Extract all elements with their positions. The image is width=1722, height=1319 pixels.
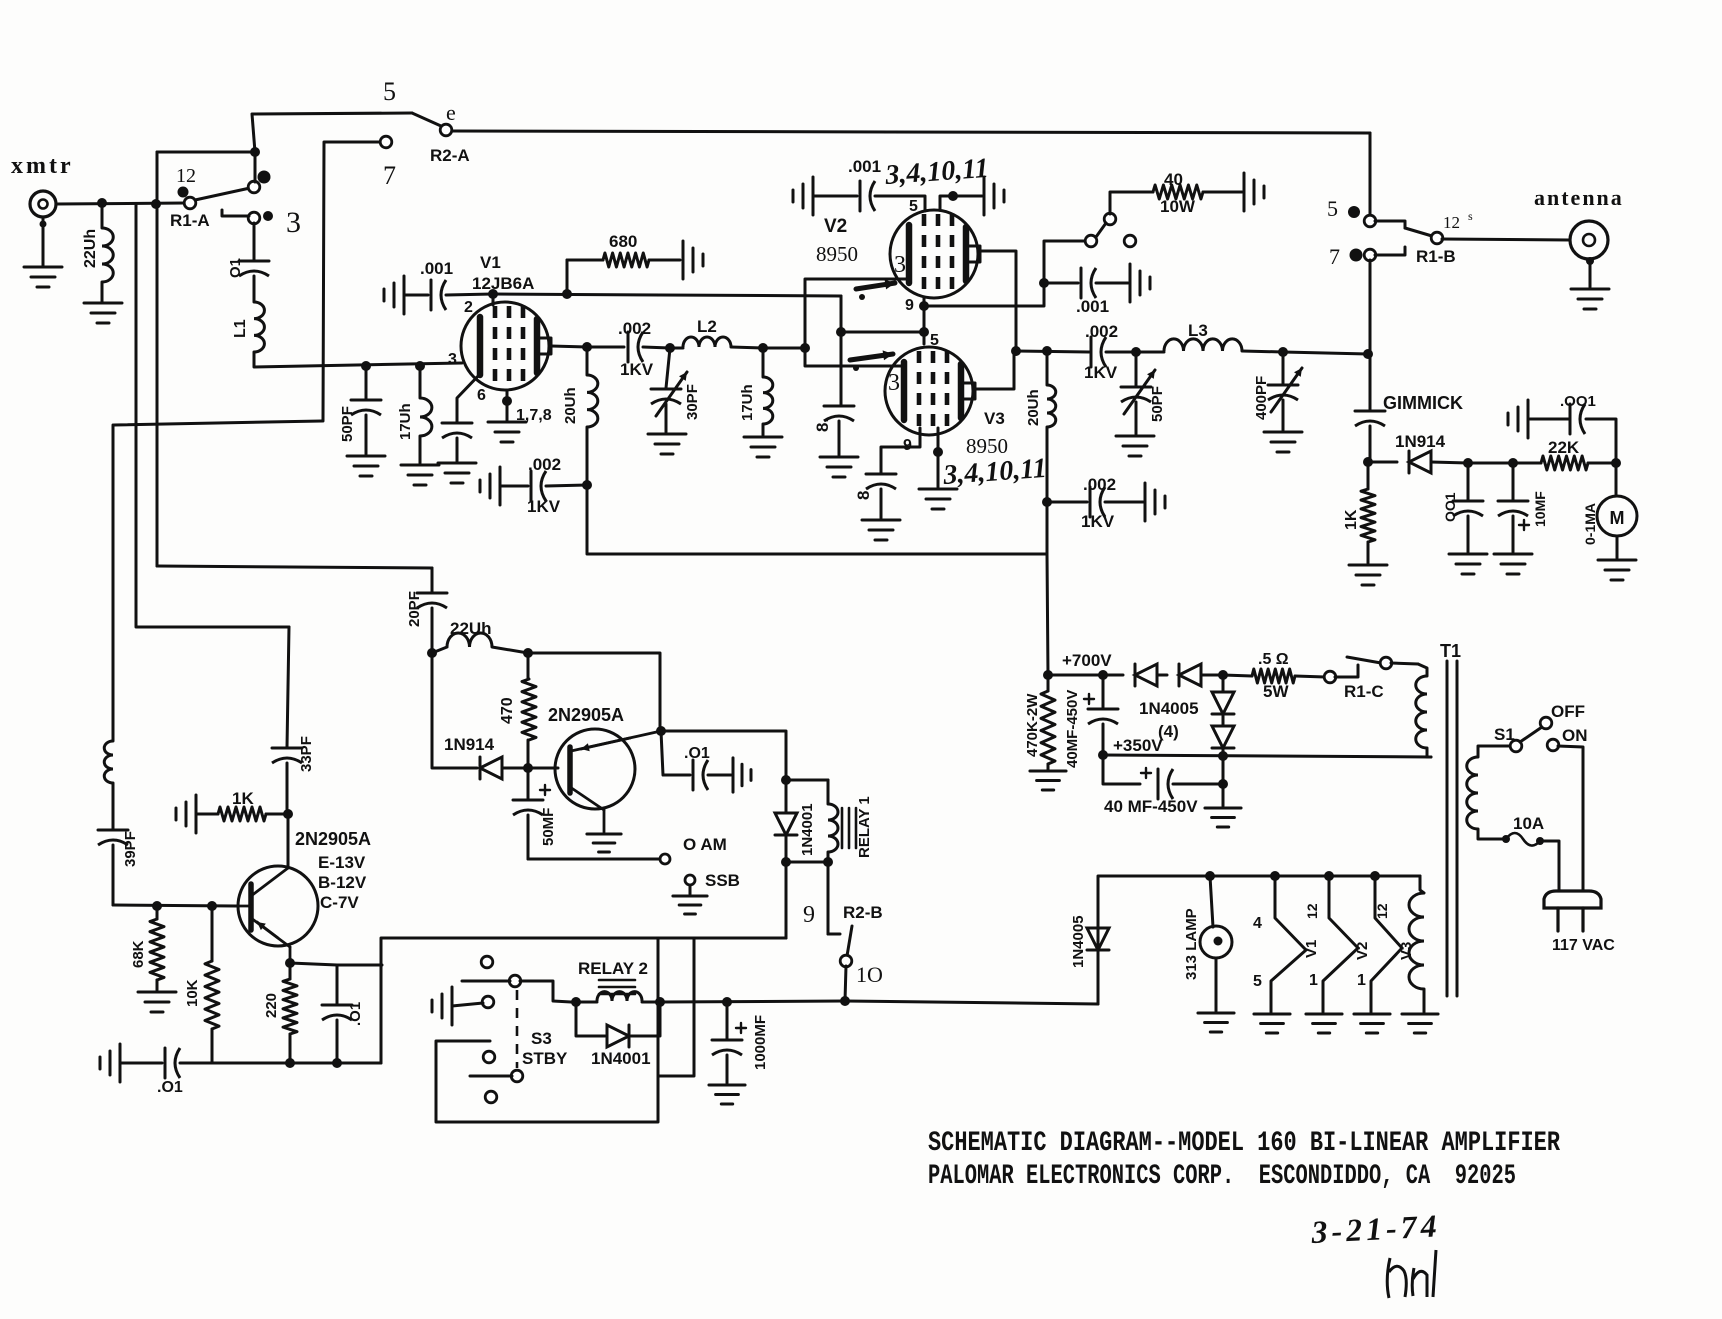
node dot Q1 emitter	[285, 958, 295, 968]
capacitor 8 cap-a	[824, 332, 854, 455]
wire y423 horizontal	[114, 421, 322, 425]
label L3	[1188, 321, 1208, 340]
wire cap to gnd	[1530, 418, 1570, 421]
label 470K-2W	[1024, 693, 1041, 757]
node dot 400PF	[1278, 347, 1288, 357]
svg-text:STBY: STBY	[522, 1049, 568, 1068]
wire emitter to cap01	[290, 963, 337, 965]
label R2-B	[843, 903, 883, 922]
wire .002 to 30PF node	[643, 347, 670, 348]
handwritten 7 R1B	[1329, 244, 1340, 269]
label .001 V2 cath	[1076, 297, 1109, 316]
node dot antenna branch	[1363, 349, 1373, 359]
node dot rect-350	[1218, 751, 1228, 761]
svg-text:1O: 1O	[856, 962, 883, 987]
switch S3 c3	[483, 1051, 495, 1063]
plug 117VAC	[1544, 891, 1601, 931]
label 470	[499, 697, 516, 724]
wire S3 pole1 out	[520, 981, 571, 1002]
ground heater winding	[1402, 1014, 1438, 1033]
svg-text:4: 4	[1253, 915, 1262, 932]
inductor 22Uh-b	[432, 633, 528, 653]
meter M 0-1MA	[1597, 463, 1637, 536]
switch S3 pole2	[511, 1070, 523, 1082]
node dot V1 pins178	[502, 396, 512, 406]
wire x113 down to amp	[112, 425, 115, 741]
svg-text:1N4005: 1N4005	[1070, 915, 1087, 968]
wire V1 plate	[551, 346, 587, 347]
ground 400PF	[1264, 432, 1302, 452]
switch S1 OFF contact	[1540, 717, 1552, 729]
diode 1N914 meter	[1368, 451, 1468, 473]
svg-text:10MF: 10MF	[1532, 491, 1548, 527]
node dot meter in	[1363, 457, 1373, 467]
label 1N4001 relay1	[799, 803, 816, 856]
svg-text:33PF: 33PF	[298, 736, 315, 772]
label V1	[480, 253, 501, 272]
handwritten 10	[856, 962, 883, 987]
svg-text:1000MF: 1000MF	[752, 1015, 769, 1070]
wire L2 to V2V3	[763, 347, 805, 350]
wire 700v to cap	[1048, 674, 1103, 677]
label R1-C	[1344, 682, 1384, 701]
plus 10MF	[1519, 520, 1529, 530]
svg-text:10A: 10A	[1513, 814, 1544, 833]
wire V3 center stub	[937, 428, 940, 452]
svg-text:40MF-450V: 40MF-450V	[1064, 690, 1081, 768]
svg-text:5W: 5W	[1263, 682, 1289, 701]
label 1KV c	[1081, 512, 1115, 531]
capacitor 30PF variable	[651, 348, 681, 432]
switch R1-A lever	[195, 188, 250, 200]
label 1K amp	[232, 789, 254, 808]
label .002 b	[528, 455, 561, 474]
svg-text:3: 3	[894, 252, 906, 278]
resistor 40 10W	[1153, 185, 1203, 199]
wire bus y152	[157, 151, 255, 154]
node dot xmtr-22uh	[97, 198, 107, 208]
svg-text:2N2905A: 2N2905A	[548, 705, 624, 725]
label 40	[1164, 170, 1183, 189]
label C-7V	[320, 893, 359, 912]
label 1N914 meter	[1395, 432, 1446, 451]
svg-text:V1: V1	[480, 253, 501, 272]
svg-text:8.: 8.	[854, 486, 873, 500]
svg-text:C-7V: C-7V	[320, 893, 359, 912]
wire meter cap branch	[1586, 419, 1616, 463]
label 10K	[184, 979, 201, 1007]
node dot relay1 top	[781, 775, 791, 785]
node dot 350V	[1098, 750, 1108, 760]
svg-text:s: s	[1468, 209, 1473, 223]
node dot Q2 top	[656, 726, 666, 736]
svg-text:1: 1	[1357, 972, 1366, 989]
label .002 d	[1085, 322, 1118, 341]
node dot V3 htr	[1370, 871, 1380, 881]
handwritten signature	[1387, 1250, 1436, 1298]
handwritten arrow V3 grid	[850, 350, 893, 371]
svg-text:220: 220	[263, 993, 280, 1018]
svg-text:12: 12	[1304, 903, 1320, 919]
node dot V2 htr	[1324, 871, 1334, 881]
node dot 30PF	[665, 343, 675, 353]
label 12 b	[1374, 903, 1390, 919]
label 1000MF	[752, 1015, 769, 1070]
wire .001 to grid bus	[446, 294, 493, 295]
label B-12V	[318, 873, 367, 892]
ground V2 htr	[1306, 1014, 1342, 1033]
ground SSB	[673, 896, 707, 914]
capacitor .01 keyer	[661, 731, 708, 790]
wire emitter bypass right	[337, 964, 382, 967]
wire relay1 bottom	[786, 861, 828, 864]
wire .01 to bus	[180, 1062, 212, 1065]
label 39PF	[122, 831, 139, 867]
label 12 a	[1304, 903, 1320, 919]
inductor 22Uh choke	[102, 203, 113, 302]
wire V2 pin9 stub	[923, 297, 926, 306]
ground 17Uh right	[744, 437, 782, 457]
svg-text:470K-2W: 470K-2W	[1024, 693, 1041, 757]
capacitor 40MF-450V lower	[1158, 769, 1173, 799]
node dot 20Uh bottom	[582, 480, 592, 490]
svg-text:40 MF-450V: 40 MF-450V	[1104, 797, 1198, 816]
svg-text:20PF: 20PF	[406, 591, 423, 627]
label 22K	[1548, 438, 1580, 457]
label 30PF	[684, 384, 701, 420]
inductor 20Uh	[587, 347, 598, 485]
svg-text:22K: 22K	[1548, 438, 1580, 457]
wire to 680	[567, 259, 603, 262]
wire R1-C bracket	[1335, 665, 1358, 677]
ground V1 htr	[1254, 1014, 1290, 1033]
wire V2pin9-V3pin5	[923, 306, 926, 332]
wire heater bus	[1098, 876, 1420, 1004]
wire L1 to cathode line	[254, 352, 462, 367]
heater V1	[1271, 876, 1306, 1012]
svg-text:1N914: 1N914	[444, 735, 495, 754]
wire y567 to 20PF	[157, 566, 432, 568]
switch R1-A pivot	[184, 197, 196, 209]
wire .002b to node	[546, 485, 587, 486]
node dot cap10mf	[1508, 458, 1518, 468]
label 22Uh-b	[450, 619, 492, 638]
svg-text:T1: T1	[1440, 641, 1461, 661]
svg-text:OFF: OFF	[1551, 702, 1585, 721]
ground V1 cathode cap	[438, 463, 476, 483]
wire 40 to gnd	[1203, 191, 1242, 194]
node dot antenna gnd	[1586, 257, 1594, 265]
arrow 400PF	[1271, 368, 1302, 412]
svg-text:20Uh: 20Uh	[1025, 389, 1042, 426]
inductor 20Uh right	[1047, 351, 1056, 502]
node dot plate junction	[800, 343, 810, 353]
label V3 htr	[1398, 942, 1415, 960]
inductor 17Uh right	[763, 348, 773, 435]
resistor 1K amp	[196, 807, 288, 821]
diode 1N914 keyer	[480, 757, 528, 779]
label R1-A	[170, 211, 210, 230]
handwritten date	[1309, 1207, 1441, 1250]
svg-text:9: 9	[905, 297, 914, 314]
wire S3 gnd	[452, 1003, 483, 1006]
svg-text:20Uh: 20Uh	[562, 387, 579, 424]
label 2N2905A Q1	[295, 829, 371, 849]
diode 1N4005 heater	[1087, 928, 1109, 950]
label 2N2905A Q2	[548, 705, 624, 725]
svg-text:9: 9	[803, 902, 815, 928]
ground V1 pins178	[488, 422, 526, 442]
diode 1N4001 relay1	[775, 780, 797, 862]
wire diodes hv	[1103, 674, 1123, 677]
svg-text:RELAY 2: RELAY 2	[578, 959, 648, 978]
switch S1 ON contact	[1547, 739, 1559, 751]
label 8 cap-b	[854, 486, 873, 500]
svg-text:L1: L1	[232, 319, 249, 338]
ground 30PF	[648, 434, 686, 454]
capacitor .002 1KV lower	[531, 471, 546, 501]
svg-text:40: 40	[1164, 170, 1183, 189]
svg-text:7: 7	[383, 161, 396, 190]
node dot V1 htr	[1270, 871, 1280, 881]
wire V3 plate	[976, 351, 1014, 389]
label 1 b	[1357, 972, 1366, 989]
svg-text:30PF: 30PF	[684, 384, 701, 420]
wire R2-B bracket	[828, 933, 840, 936]
svg-text:GIMMICK: GIMMICK	[1383, 393, 1463, 413]
svg-text:R1-A: R1-A	[170, 211, 210, 230]
label 20Uh right	[1025, 389, 1042, 426]
node dot xmtr-bus	[151, 199, 161, 209]
svg-text:.002: .002	[1083, 475, 1116, 494]
wire grid bus V1	[493, 294, 841, 296]
contact blob 11	[258, 171, 271, 184]
switch R1-C pivot	[1380, 657, 1392, 669]
handwritten 3,4,10,11 top	[883, 153, 989, 191]
label 8950 V2	[816, 242, 858, 266]
svg-text:xmtr: xmtr	[11, 153, 74, 179]
wire R1-B to gimmick	[1369, 260, 1372, 410]
switch R1-A lower contact	[248, 211, 273, 224]
wire gimmick to diode node	[1369, 426, 1372, 462]
ground Q2	[587, 834, 621, 852]
wire plate bus	[1016, 351, 1089, 352]
switch R1-C lever	[1347, 657, 1381, 663]
node dot 22Uh-b left	[427, 648, 437, 658]
svg-text:V2: V2	[1354, 942, 1371, 960]
wire .01k to gnd	[708, 774, 731, 777]
wire .001 to gnd	[1096, 282, 1128, 285]
relay RELAY 1 coil	[828, 780, 838, 862]
label V2 htr	[1354, 942, 1371, 960]
label 10MF	[1532, 491, 1548, 527]
node dot V3 pin9	[933, 447, 943, 457]
wire relay2 inner	[658, 938, 694, 1076]
pin label 2	[464, 299, 473, 316]
handwritten 3,4,10,11 bottom	[941, 453, 1047, 491]
label V2	[824, 216, 847, 237]
resistor 68K	[150, 906, 164, 990]
label 8950 V3	[966, 434, 1008, 458]
node dot relay2 right	[655, 997, 665, 1007]
node dot V3 pin5	[919, 327, 929, 337]
node dot 470 top	[523, 648, 533, 658]
tube V2 8950	[890, 210, 980, 298]
svg-text:3: 3	[286, 206, 301, 239]
node dot 40mfb	[1218, 779, 1228, 789]
capacitor 10MF	[1498, 463, 1528, 552]
wire .001 to V2 top	[875, 196, 925, 211]
svg-text:M: M	[1610, 508, 1625, 528]
switch S3 c4	[485, 1091, 497, 1103]
wire relay2 box	[436, 938, 658, 1122]
label pin9 V2	[905, 297, 914, 314]
wire V3 pin9 gnd stem	[937, 452, 940, 487]
node dot lamp	[1205, 871, 1215, 881]
tube V3 8950	[885, 347, 975, 435]
wire gnd to .001 V2	[813, 195, 857, 198]
capacitor .001 meter top	[1570, 404, 1585, 434]
node dot 20Uh right top	[1042, 346, 1052, 356]
svg-text:10W: 10W	[1160, 197, 1196, 216]
wire vertical x157 lower	[156, 204, 159, 566]
wire top to collector line	[528, 653, 660, 731]
label 20Uh	[562, 387, 579, 424]
svg-text:2N2905A: 2N2905A	[295, 829, 371, 849]
label 40MF-450V lower	[1104, 797, 1198, 816]
label pin5 V2	[909, 198, 918, 215]
svg-text:OO1: OO1	[1442, 492, 1458, 522]
svg-text:L3: L3	[1188, 321, 1208, 340]
handwritten 6	[446, 100, 456, 125]
capacitor .01 (L1 series)	[239, 261, 269, 276]
label S3	[531, 1029, 552, 1048]
wire fuse down	[1540, 841, 1559, 891]
ground S3	[432, 987, 452, 1025]
wire V3 pin5 stub	[923, 332, 926, 344]
label 50PF tank	[1149, 386, 1166, 422]
ground 8cap-b	[862, 520, 900, 540]
wire xmtr ground stem	[40, 217, 47, 266]
svg-text:V1: V1	[1303, 940, 1320, 958]
wire gnd to .01 in	[120, 1062, 162, 1065]
svg-text:V3: V3	[984, 409, 1005, 428]
ground V3 htr	[1354, 1014, 1390, 1033]
label 8 cap-a	[813, 418, 832, 432]
tube V1 12JB6A	[461, 302, 551, 390]
node dot .01 bus	[332, 1058, 342, 1068]
switch contact top (40ohm)	[1104, 213, 1116, 225]
transistor Q1 2N2905A	[236, 814, 318, 961]
pin label 6	[477, 387, 486, 404]
wire base wire	[528, 767, 558, 770]
svg-text:R1-C: R1-C	[1344, 682, 1384, 701]
node dot V1 grid	[488, 289, 498, 299]
wire relay2 box top	[658, 937, 786, 940]
switch lever 40ohm	[1096, 223, 1106, 237]
capacitor .002 1KV right-lower	[1047, 487, 1105, 517]
node dot cap001m	[1463, 458, 1473, 468]
node dot 8cap-a	[836, 327, 846, 337]
resistor .5 5W	[1223, 669, 1325, 683]
capacitor 50MF	[513, 768, 550, 859]
wire ON down	[1558, 746, 1583, 891]
switch R1-A upper contact	[248, 181, 260, 193]
label 22Uh	[82, 229, 99, 268]
svg-text:.001: .001	[1076, 297, 1109, 316]
switch R2-B lever	[847, 926, 852, 956]
switch R1-B lever	[1405, 228, 1432, 236]
node dot meter top	[1611, 458, 1621, 468]
wire relay1 drop	[785, 862, 788, 938]
resistor 680	[603, 253, 649, 267]
svg-text:.O1: .O1	[157, 1079, 183, 1096]
wire x136-y627 jog	[136, 424, 289, 627]
svg-text:L2: L2	[697, 317, 717, 336]
wire gnd to .002 lower	[500, 485, 528, 488]
capacitor .001 V1 grid	[431, 280, 446, 310]
wire antenna gnd	[1589, 261, 1592, 287]
wire R1-A lower bracket	[222, 210, 249, 216]
svg-text:22Uh: 22Uh	[450, 619, 492, 638]
wire R2-A lower bracket	[323, 142, 380, 421]
svg-text:8950: 8950	[816, 242, 858, 266]
label L2	[697, 317, 717, 336]
switch S3 c1	[481, 956, 493, 968]
handwritten 9	[803, 902, 815, 928]
label 40MF-450V upper	[1064, 690, 1081, 768]
wire plate to .002	[587, 346, 624, 349]
label OFF	[1551, 702, 1585, 721]
label GIMMICK	[1383, 393, 1463, 413]
transformer T1 core	[1447, 661, 1457, 996]
title line 1	[928, 1128, 1560, 1159]
ground 1K amp	[176, 795, 196, 833]
wire tank to antenna node	[1283, 352, 1368, 354]
svg-text:12: 12	[1443, 213, 1460, 232]
ground V2 input cap	[793, 177, 813, 215]
transformer T1 primary	[1467, 746, 1512, 839]
svg-text:5: 5	[1253, 973, 1262, 990]
label .001 meter top	[1560, 393, 1596, 410]
node dot 40MF top	[1098, 670, 1108, 680]
ground V1 grid cap	[384, 276, 404, 314]
label RELAY 2	[578, 959, 648, 978]
wire bottom bus	[587, 485, 1047, 554]
wire R2-A to R1-B	[452, 131, 1370, 133]
wire contact to bus	[254, 157, 257, 182]
dashes S3 gang	[516, 990, 519, 1068]
title line 2	[928, 1161, 1516, 1192]
wire V2 cathode	[924, 241, 1085, 306]
wire contact to cap .01	[253, 223, 256, 261]
relay RELAY 2 coil	[571, 992, 660, 1002]
svg-text:6: 6	[477, 387, 486, 404]
capacitor V1 cathode	[442, 423, 472, 438]
ground .002 lower	[480, 467, 500, 505]
label .5ohm	[1258, 651, 1289, 668]
node xmtr label	[11, 153, 74, 179]
capacitor .001 V2	[860, 181, 875, 211]
contact blob 12	[176, 165, 196, 198]
svg-text:313 LAMP: 313 LAMP	[1183, 908, 1200, 980]
wire bus to heater	[845, 1001, 1098, 1004]
svg-text:1N4001: 1N4001	[591, 1049, 651, 1068]
node dot relay2 left	[571, 997, 581, 1007]
label 1KV b	[527, 497, 561, 516]
node dot 220 bus	[285, 1058, 295, 1068]
wire pivot to antenna	[1442, 239, 1570, 240]
